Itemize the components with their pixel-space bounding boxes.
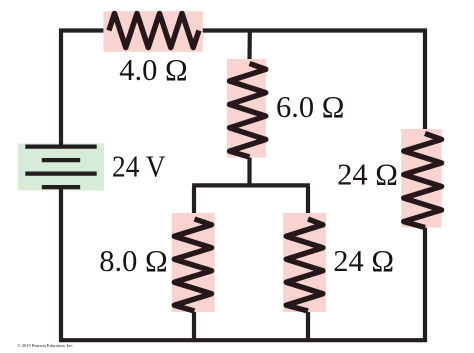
- wire: stub from R2 bottom down to junction bar: [247, 157, 251, 185]
- wire: middle branch stub from top rail down to R2: [247, 30, 252, 64]
- wire: right rail lower + bottom rail + left rail lower (from R3 bottom to battery bottom): [59, 187, 427, 342]
- resistor R5 (24 ohm, bottom right): [283, 213, 326, 312]
- svg-text:24 V: 24 V: [112, 150, 166, 184]
- wire: left rail from battery top up and across to resistor R1: [59, 31, 109, 147]
- svg-text:4.0 Ω: 4.0 Ω: [119, 53, 187, 87]
- resistor R1 (4.0 ohm, top): [103, 11, 202, 52]
- svg-text:6.0 Ω: 6.0 Ω: [276, 90, 344, 124]
- wire: from R1 right end across top and down right rail to R3: [199, 28, 425, 133]
- svg-text:24 Ω: 24 Ω: [337, 158, 398, 192]
- resistor R2 (6.0 ohm, middle): [227, 59, 266, 158]
- wire: junction bar with drops to R4 and R5: [192, 185, 310, 219]
- svg-text:© 2019 Pearson Education, Inc.: © 2019 Pearson Education, Inc.: [18, 343, 74, 349]
- battery V1 (24 V): [18, 143, 104, 190]
- resistor R4 (8.0 ohm, bottom left): [172, 213, 215, 312]
- svg-text:24 Ω: 24 Ω: [333, 244, 394, 278]
- wire: lower stub from R5 to bottom rail: [306, 311, 310, 340]
- svg-text:8.0 Ω: 8.0 Ω: [99, 244, 167, 278]
- wire: lower stub from R4 to bottom rail: [192, 311, 196, 340]
- resistor R3 (24 ohm, right rail): [401, 129, 441, 228]
